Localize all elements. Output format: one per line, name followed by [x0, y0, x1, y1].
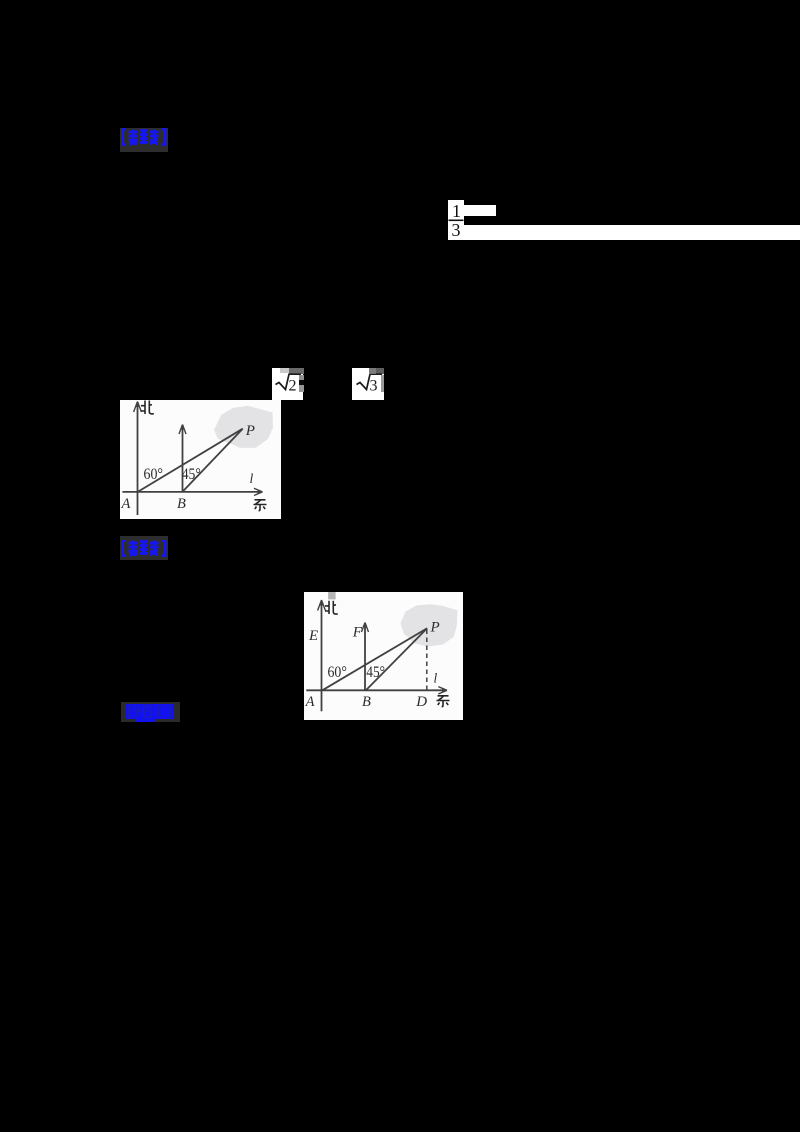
labels: [120, 423, 254, 512]
svg-text:3: 3: [370, 378, 378, 395]
svg-text:60°: 60°: [143, 466, 163, 483]
bei glyph: [325, 601, 338, 614]
dong glyph: [437, 696, 450, 707]
bei glyph: [141, 401, 154, 415]
dong glyph: [253, 500, 266, 511]
blue label 3 solid blue: [126, 704, 173, 719]
svg-text:B: B: [362, 694, 371, 710]
blue label 3 dark marks: [126, 704, 173, 719]
B vertical arrow: [181, 428, 183, 493]
horizontal axis: [122, 491, 261, 493]
gray blob: [401, 604, 458, 647]
sqrt2 glyph: [272, 368, 303, 400]
north axis: [136, 405, 138, 516]
blue label 1 background: [120, 128, 168, 152]
svg-text:3: 3: [452, 220, 461, 240]
sqrt2 gray patches: [280, 368, 289, 373]
F vertical arrow: [364, 626, 366, 691]
svg-text:60°: 60°: [328, 664, 347, 681]
labels: [305, 620, 440, 710]
line B-P: [182, 429, 242, 492]
dashed P-D: [426, 630, 428, 690]
line A-P: [322, 628, 427, 690]
svg-text:1: 1: [452, 201, 461, 221]
fraction 1/3 white box: [448, 200, 464, 240]
line A-P: [137, 429, 242, 492]
blue label 3 descender blob: [135, 718, 155, 722]
svg-text:l: l: [434, 671, 438, 686]
line B-P: [366, 628, 427, 690]
svg-text:D: D: [415, 694, 427, 710]
svg-text:P: P: [244, 423, 254, 439]
svg-text:F: F: [352, 624, 363, 640]
diagram 2: [304, 592, 463, 720]
svg-text:A: A: [305, 694, 315, 710]
svg-text:2: 2: [289, 378, 297, 395]
fraction glyphs: [448, 200, 464, 240]
svg-text:45°: 45°: [181, 466, 200, 483]
sqrt3 gray patches: [369, 368, 377, 374]
blue label 1 glyphs: [120, 128, 169, 152]
sqrt3 white box: [352, 368, 384, 400]
gray patch at top: [328, 592, 336, 599]
blue label 2 glyphs: [120, 540, 169, 557]
svg-text:E: E: [308, 628, 318, 644]
svg-text:P: P: [430, 620, 440, 636]
svg-text:45°: 45°: [366, 664, 385, 681]
sqrt3 glyph: [352, 368, 384, 400]
sqrt2 white box: [272, 368, 303, 400]
diagram 1: [120, 400, 281, 519]
blue label 3 background: [121, 702, 180, 722]
svg-text:B: B: [177, 496, 186, 512]
gray blob: [214, 406, 273, 448]
fraction strip right of numerator: [464, 205, 496, 217]
blue label 2 background: [120, 536, 168, 560]
horizontal axis: [306, 689, 445, 691]
svg-text:A: A: [120, 496, 130, 512]
fraction long strip right of denominator: [464, 225, 800, 240]
svg-text:l: l: [249, 471, 253, 486]
north axis: [321, 603, 323, 711]
